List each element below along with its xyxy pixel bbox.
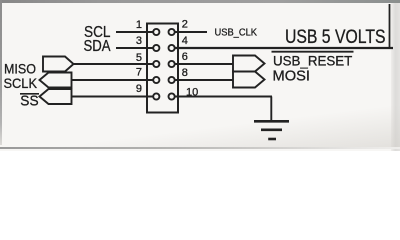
net flag SS: [40, 89, 72, 104]
svg-text:SDA: SDA: [84, 38, 111, 55]
photo border left: [0, 0, 2, 145]
svg-text:10: 10: [186, 86, 198, 98]
connector header body: [147, 24, 178, 113]
pin 4 circle: [169, 45, 175, 51]
svg-text:3: 3: [136, 35, 142, 47]
wire SS to pin 9: [72, 96, 154, 98]
wire SCLK to pin 7: [72, 79, 154, 81]
net flag SCLK: [40, 73, 72, 88]
svg-text:4: 4: [182, 35, 188, 47]
wire SCL to pin 1: [116, 31, 154, 33]
net flag MOSI: [233, 72, 265, 88]
wire USB 5 VOLTS rail vertical branch: [389, 4, 391, 48]
svg-text:USB 5 VOLTS: USB 5 VOLTS: [285, 27, 386, 48]
svg-text:1: 1: [136, 19, 142, 31]
pin 8 circle: [169, 77, 175, 83]
photo border top: [0, 0, 400, 3]
wire pin 4 USB 5 VOLTS rail: [175, 47, 394, 49]
svg-text:6: 6: [182, 51, 188, 63]
wire pin 10 vertical drop to ground: [270, 97, 272, 122]
photo border bottom: [0, 147, 400, 149]
pin 3 circle: [153, 45, 159, 51]
net flag MISO: [43, 57, 74, 72]
pin 5 circle: [153, 61, 159, 67]
svg-text:5: 5: [136, 52, 142, 64]
svg-text:SCLK: SCLK: [4, 75, 38, 91]
wire pin 2 to USB_CLK: [175, 31, 208, 33]
photo border right shadow band: [391, 0, 400, 151]
overline for SS label: [20, 93, 39, 95]
pin 7 circle: [153, 77, 159, 83]
wire SDA to pin 3: [116, 47, 154, 49]
svg-text:USB_CLK: USB_CLK: [215, 26, 258, 38]
wire pin 10 horizontal to ground: [175, 96, 273, 98]
ground symbol: [254, 121, 289, 139]
pin 6 circle: [169, 61, 175, 67]
wire pin 6 to USB_RESET flag: [175, 63, 234, 65]
svg-text:SS: SS: [20, 92, 38, 109]
pin 10 circle: [169, 93, 175, 99]
overline for USB_RESET label: [272, 51, 354, 53]
photo paper shading bottom-left: [0, 100, 400, 148]
net flag USB_RESET: [233, 56, 265, 72]
pin 1 circle: [153, 29, 159, 35]
pin 2 circle: [169, 29, 175, 35]
pin 9 circle: [153, 93, 159, 99]
wire MISO to pin 5: [73, 63, 154, 65]
svg-text:7: 7: [136, 67, 142, 79]
svg-text:9: 9: [136, 83, 142, 95]
svg-text:2: 2: [182, 18, 188, 30]
wire pin 8 to MOSI flag: [175, 79, 234, 81]
svg-text:MOSI: MOSI: [273, 69, 311, 85]
svg-text:USB_RESET: USB_RESET: [273, 53, 352, 68]
svg-text:8: 8: [182, 67, 188, 79]
